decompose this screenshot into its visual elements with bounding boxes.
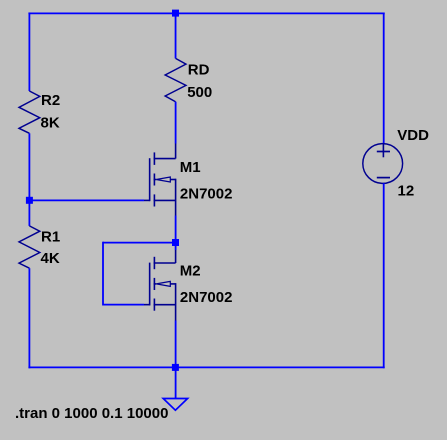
svg-text:R2: R2: [41, 92, 60, 109]
wire M2 gate loop top: [103, 242, 176, 244]
voltage source VDD: [363, 144, 403, 184]
node junction left (R2/R1/gate net): [26, 197, 33, 204]
wire M2 gate loop bottom: [103, 304, 144, 306]
svg-text:8K: 8K: [41, 114, 60, 131]
wire M1 source to mid junction: [175, 216, 177, 243]
wire left rail middle segment: [28, 133, 30, 226]
transistor M1 (NMOS 2N7002): [144, 144, 176, 216]
resistor R1: [19, 226, 40, 268]
node junction bottom (ground tap): [172, 364, 179, 371]
wire mid junction to M2 drain: [175, 243, 177, 251]
svg-text:.tran 0 1000 0.1 10000: .tran 0 1000 0.1 10000: [15, 405, 168, 422]
svg-text:VDD: VDD: [397, 127, 429, 144]
svg-text:RD: RD: [188, 61, 210, 78]
svg-text:R1: R1: [41, 228, 60, 245]
wire M2 source to bottom rail: [175, 321, 177, 368]
transistor M2 (NMOS 2N7002): [144, 250, 176, 321]
svg-text:M1: M1: [180, 159, 201, 176]
wire top rail: [28, 12, 384, 14]
node junction top (RD tap on VDD rail): [172, 10, 179, 17]
wire M2 gate loop left: [102, 242, 104, 306]
resistor R2: [19, 91, 40, 133]
svg-text:2N7002: 2N7002: [180, 289, 233, 306]
wire ground stem: [175, 367, 177, 398]
node junction middle (M1 source / M2 drain+gate): [172, 239, 179, 246]
wire RD stem from top rail: [175, 13, 177, 58]
svg-text:12: 12: [398, 182, 415, 199]
svg-text:4K: 4K: [41, 250, 60, 267]
wire left rail upper segment: [28, 12, 30, 91]
wire right rail upper segment: [383, 12, 385, 144]
wire bottom rail: [28, 366, 384, 368]
wire left rail lower segment: [28, 268, 30, 368]
svg-text:2N7002: 2N7002: [180, 186, 233, 203]
svg-text:500: 500: [187, 84, 212, 101]
resistor RD: [165, 58, 186, 101]
wire RD bottom to M1 drain: [175, 102, 177, 144]
svg-text:M2: M2: [180, 263, 201, 280]
wire right rail lower segment: [383, 183, 385, 368]
ground: [163, 399, 187, 411]
wire gate net to M1: [29, 199, 144, 201]
